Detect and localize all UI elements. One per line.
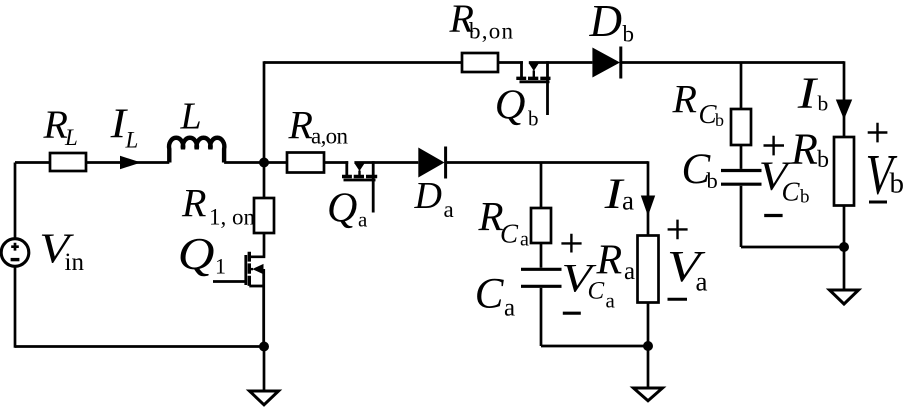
minus sign VCa <box>563 312 581 315</box>
label VCb <box>759 153 810 207</box>
svg-text:b: b <box>623 22 635 47</box>
svg-text:a,on: a,on <box>311 124 349 149</box>
svg-text:Q: Q <box>495 82 526 129</box>
svg-text:Q: Q <box>178 230 215 280</box>
wire Ra to node C <box>647 303 650 389</box>
label Cb <box>682 146 718 193</box>
transistor Qb <box>516 61 550 115</box>
minus sign VCb <box>764 214 782 217</box>
label Vb <box>866 143 905 206</box>
node B <box>259 342 269 352</box>
resistor Ra,on <box>287 153 324 173</box>
wire Qa to Da <box>354 161 418 164</box>
label Rb,on <box>449 0 514 44</box>
label RL <box>43 102 78 150</box>
wire Rb to node D <box>843 206 846 291</box>
resistor Rb,on <box>462 53 498 72</box>
ground a <box>634 388 663 401</box>
svg-text:a: a <box>696 267 708 297</box>
svg-text:b: b <box>817 147 829 173</box>
capacitor Cb <box>721 171 762 185</box>
capacitor Ca <box>521 269 562 286</box>
resistor RCb <box>731 109 751 145</box>
plus sign Vb <box>868 123 888 143</box>
svg-text:b: b <box>707 168 718 193</box>
label Db <box>589 0 635 47</box>
svg-text:a: a <box>606 289 616 313</box>
wire RCb tee down <box>740 63 743 110</box>
voltage source Vin <box>1 239 29 267</box>
resistor RCa <box>531 208 551 243</box>
ground 1 <box>250 391 279 405</box>
node A main junction <box>259 158 269 168</box>
wire top rail corner down to Rb <box>843 61 846 137</box>
wire node B to ground <box>263 347 266 392</box>
svg-text:C: C <box>500 218 519 248</box>
diode Db <box>592 47 620 79</box>
svg-text:a: a <box>520 229 529 251</box>
label Da <box>414 175 454 222</box>
svg-text:a: a <box>504 295 515 322</box>
arrow Ib <box>836 100 852 120</box>
svg-text:a: a <box>358 208 368 232</box>
svg-text:I: I <box>797 68 819 117</box>
wire Ra,on to Qa <box>324 161 348 164</box>
wire top-left horizontal <box>15 161 50 164</box>
svg-text:Q: Q <box>327 185 357 231</box>
arrow IL <box>120 156 141 169</box>
label RCb <box>672 76 725 130</box>
svg-text:D: D <box>589 0 623 46</box>
svg-text:a: a <box>444 197 454 222</box>
plus sign VCa <box>561 234 581 253</box>
ground b <box>830 290 859 304</box>
wire left vertical top <box>14 163 17 239</box>
inductor L <box>169 138 224 163</box>
wire bottom left rail <box>15 345 264 348</box>
svg-text:in: in <box>65 249 85 276</box>
wire node A down to R1,on <box>263 163 266 199</box>
plus sign VCb <box>764 136 785 156</box>
wire Ca bottom to node C <box>541 345 648 348</box>
resistor RL <box>50 153 86 171</box>
label VCa <box>562 256 616 313</box>
svg-text:b,on: b,on <box>469 19 514 44</box>
minus sign Va <box>668 298 688 301</box>
resistor Ra <box>638 236 659 303</box>
wire corner down to Ra <box>647 161 650 235</box>
node C <box>643 341 653 351</box>
wire Rb,on to Qb <box>498 61 523 64</box>
svg-text:R: R <box>790 125 818 174</box>
wire Cb down <box>740 186 743 247</box>
label Ia <box>603 171 634 218</box>
svg-text:1, on: 1, on <box>209 204 256 229</box>
label Qb <box>495 82 539 131</box>
wire RCa to Ca <box>540 243 543 268</box>
label Rb <box>790 125 829 174</box>
label R1,on <box>181 180 256 229</box>
wire Da to Ra corner <box>447 161 648 164</box>
svg-text:C: C <box>782 177 801 207</box>
svg-text:b: b <box>890 168 905 200</box>
label Ra,on <box>288 103 349 149</box>
svg-text:R: R <box>672 76 697 121</box>
label Ib <box>797 68 829 117</box>
label IL <box>110 100 139 152</box>
svg-text:1: 1 <box>215 253 226 278</box>
svg-text:a: a <box>624 258 635 285</box>
svg-text:R: R <box>288 103 313 148</box>
diode Da <box>418 147 445 179</box>
node D <box>839 242 849 252</box>
svg-text:a: a <box>622 185 634 215</box>
wire Ca down <box>540 288 543 346</box>
transistor Qa <box>342 161 377 212</box>
svg-text:b: b <box>715 110 724 130</box>
wire Db to Rb corner <box>622 61 844 64</box>
svg-text:L: L <box>64 125 78 150</box>
svg-text:R: R <box>181 180 206 225</box>
label Va <box>667 242 708 297</box>
svg-text:b: b <box>528 107 539 131</box>
svg-text:b: b <box>800 187 810 208</box>
label Ra <box>596 238 636 286</box>
label Ca <box>475 270 515 321</box>
svg-text:D: D <box>414 175 442 217</box>
arrow Ia <box>641 196 655 217</box>
label Vin <box>39 224 84 276</box>
wire Qb to Db <box>529 61 593 64</box>
wire RL to inductor <box>86 161 169 164</box>
minus sign Vb <box>869 200 887 203</box>
svg-text:R: R <box>596 238 623 284</box>
wire node A up to top rail <box>263 61 266 162</box>
wire top rail <box>264 61 462 64</box>
label Q1 <box>178 230 226 280</box>
wire R1,on to Q1 drain <box>249 233 265 257</box>
transistor Q1 <box>213 252 264 348</box>
wire left vertical bottom <box>14 266 17 348</box>
wire inductor to node A <box>224 161 287 164</box>
svg-text:L: L <box>180 96 202 138</box>
svg-text:b: b <box>818 92 829 116</box>
plus sign Va <box>668 220 688 240</box>
svg-text:C: C <box>475 270 505 317</box>
wire Cb bottom to node D <box>741 246 844 249</box>
label Qa <box>327 185 368 231</box>
svg-text:L: L <box>125 128 139 153</box>
resistor R1,on <box>254 198 274 233</box>
wire RCa tee down <box>540 163 543 209</box>
resistor Rb <box>834 137 854 206</box>
label RCa <box>478 193 530 250</box>
wire RCb to Cb <box>740 145 743 169</box>
